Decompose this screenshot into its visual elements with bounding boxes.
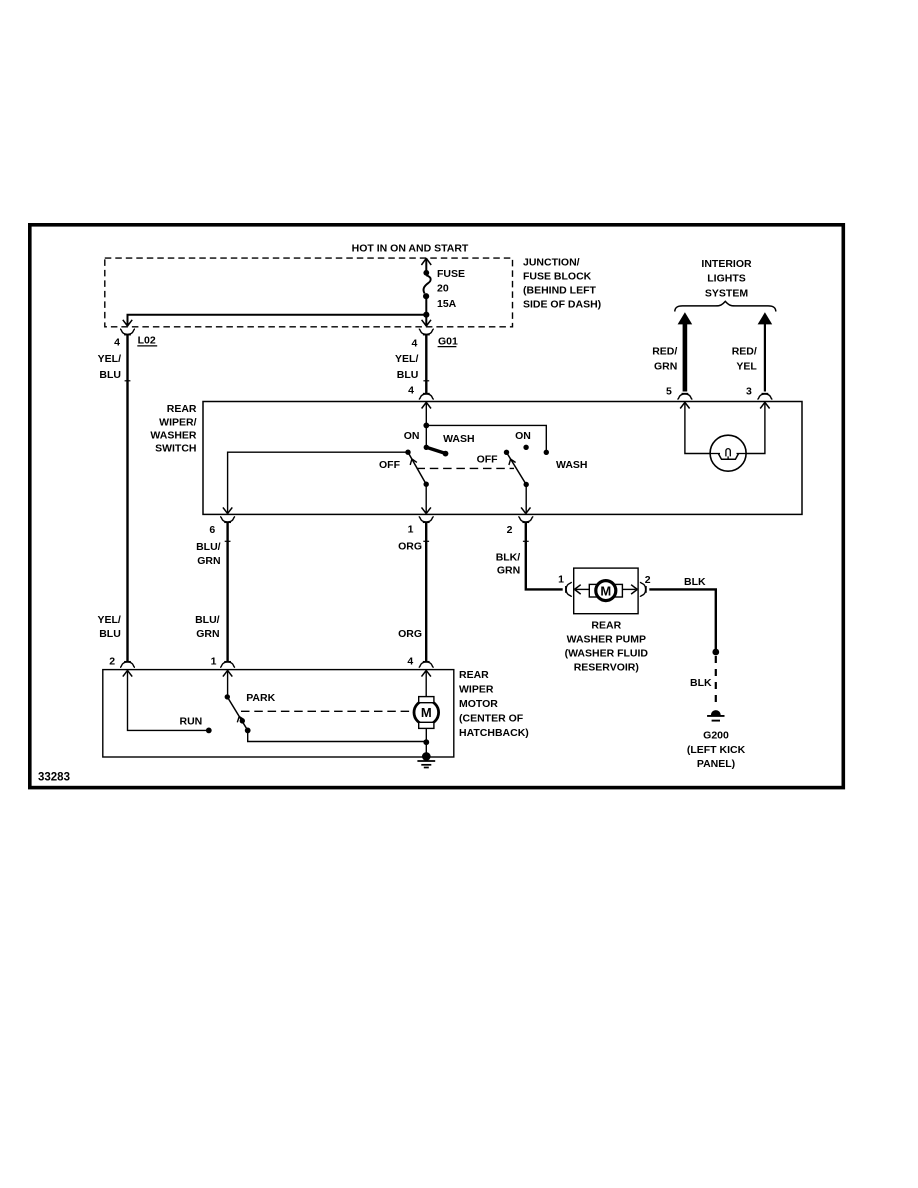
rear wiper motor (box) <box>103 670 454 757</box>
label: REAR WIPER MOTOR (CENTER OF HATCHBACK) <box>459 669 529 739</box>
label: BLU/GRN (lower) <box>195 614 220 640</box>
svg-text:BLU: BLU <box>397 369 419 381</box>
svg-text:REAR: REAR <box>591 620 621 632</box>
wiper motor M <box>414 697 439 729</box>
svg-text:HOT IN ON AND START: HOT IN ON AND START <box>352 243 469 255</box>
switch pin 6 connector (bottom edge) <box>209 507 235 535</box>
svg-text:4: 4 <box>114 336 120 348</box>
label: JUNCTION/FUSE BLOCK (BEHIND LEFT SIDE OF DASH) <box>523 257 601 311</box>
wire: pin 3 to lamp <box>746 402 765 454</box>
svg-text:2: 2 <box>645 574 651 586</box>
wiper motor pin 2 connector (top edge) <box>109 655 135 676</box>
svg-text:G200: G200 <box>703 730 729 742</box>
svg-text:LIGHTS: LIGHTS <box>707 273 746 285</box>
svg-text:BLK: BLK <box>690 677 712 689</box>
svg-text:BLU: BLU <box>99 369 121 381</box>
node: fuse output junction <box>423 312 429 318</box>
switch pin 4 connector (top edge) <box>408 384 434 408</box>
wire BLK (dashed) to ground <box>715 656 717 704</box>
svg-text:20: 20 <box>437 283 449 295</box>
svg-text:ORG: ORG <box>398 541 422 553</box>
wire: pin 4 into switch <box>425 402 427 424</box>
svg-text:GRN: GRN <box>196 628 219 640</box>
svg-text:(CENTER OF: (CENTER OF <box>459 713 524 725</box>
svg-text:(BEHIND LEFT: (BEHIND LEFT <box>523 285 596 297</box>
svg-text:WASH: WASH <box>443 433 475 445</box>
svg-text:WASHER: WASHER <box>150 430 197 442</box>
svg-text:1: 1 <box>558 574 564 586</box>
wire: fuse output down to junction node <box>425 298 427 315</box>
wire: junction node to L02 drop <box>128 315 427 327</box>
svg-text:GRN: GRN <box>197 555 220 567</box>
svg-text:SIDE OF DASH): SIDE OF DASH) <box>523 298 601 310</box>
wire BLK: washer pump pin 2 to splice <box>649 589 716 649</box>
wire: wash bus to pole 2 WASH contact <box>426 425 546 450</box>
label: YEL/BLU (at G01) <box>395 353 418 381</box>
svg-text:G01: G01 <box>438 336 458 348</box>
connector G01 (pin 4) at J/B bottom edge <box>411 320 458 350</box>
svg-text:BLK: BLK <box>684 576 706 588</box>
svg-text:REAR: REAR <box>459 669 489 681</box>
wire: pin 5 to lamp <box>685 402 711 454</box>
svg-text:ON: ON <box>515 430 531 442</box>
svg-text:WIPER/: WIPER/ <box>159 416 196 428</box>
svg-text:L02: L02 <box>138 335 156 347</box>
ground G200 <box>707 710 724 721</box>
svg-text:RED/: RED/ <box>652 346 677 358</box>
wiper motor pin 4 connector (top edge) <box>407 655 433 676</box>
RUN contact (open end) <box>206 728 212 734</box>
svg-text:BLU: BLU <box>99 628 121 640</box>
svg-text:(WASHER FLUID: (WASHER FLUID <box>565 647 649 659</box>
label: FUSE 20 15A <box>437 268 465 310</box>
switch pin 1 connector (bottom edge) <box>408 507 434 535</box>
svg-text:FUSE BLOCK: FUSE BLOCK <box>523 271 592 283</box>
brace under interior lights label <box>675 301 776 311</box>
svg-text:M: M <box>421 705 432 720</box>
svg-text:1: 1 <box>408 524 414 536</box>
wire: OFF contact to pin 6 drop <box>228 452 408 513</box>
pole 2 WASH contact <box>544 450 549 455</box>
svg-text:YEL/: YEL/ <box>98 353 121 365</box>
rear washer pump (box) <box>574 568 638 614</box>
svg-text:ORG: ORG <box>398 628 422 640</box>
svg-text:4: 4 <box>407 655 413 667</box>
wire: HOT bus feed into fuse (arrow up at J/B top edge) <box>421 258 431 271</box>
svg-text:JUNCTION/: JUNCTION/ <box>523 257 580 269</box>
wire RED/GRN (bold) to interior lights, switch pin 5 <box>677 312 692 408</box>
svg-text:SWITCH: SWITCH <box>155 443 196 455</box>
svg-text:1: 1 <box>211 655 217 667</box>
svg-text:MOTOR: MOTOR <box>459 698 498 710</box>
svg-text:WASH: WASH <box>556 459 588 471</box>
pole 1 ON contact + wiper blade (thick, ON-WASH) <box>424 427 449 457</box>
svg-text:15A: 15A <box>437 298 457 310</box>
svg-text:HATCHBACK): HATCHBACK) <box>459 727 529 739</box>
wire BLK/GRN: switch pin 2 to washer pump pin 1 <box>523 523 563 590</box>
svg-text:RED/: RED/ <box>732 346 757 358</box>
svg-text:3: 3 <box>746 386 752 398</box>
pole 1 blade: OFF to common (arrow) <box>408 452 429 487</box>
pole 2 ON contact (open) <box>523 445 528 450</box>
svg-text:BLU/: BLU/ <box>195 614 220 626</box>
washer pump pin 1 connector (left edge) <box>558 574 581 597</box>
svg-text:4: 4 <box>408 384 414 396</box>
park switch common contact <box>225 694 230 699</box>
mechanical link (dashed): park blade to motor <box>241 710 413 712</box>
connector L02 (pin 4) at J/B bottom edge <box>114 320 157 349</box>
svg-text:OFF: OFF <box>379 459 401 471</box>
svg-text:M: M <box>600 583 611 598</box>
svg-text:2: 2 <box>507 524 513 536</box>
svg-text:RESERVOIR): RESERVOIR) <box>574 662 639 674</box>
svg-text:2: 2 <box>109 655 115 667</box>
wire: pin 2 to RUN contact <box>128 670 207 730</box>
label: BLK/GRN <box>496 551 521 576</box>
svg-text:PANEL): PANEL) <box>697 758 735 770</box>
wire: junction to case ground <box>425 742 427 754</box>
wire: junction node down to G01 <box>425 317 427 326</box>
label: RED/YEL + pin 3 <box>732 346 758 398</box>
label: RED/GRN + pin 5 <box>652 346 677 398</box>
pole 1 OFF contact <box>405 450 410 455</box>
wire BLU/GRN: switch pin 6 to wiper motor pin 1 <box>225 523 231 662</box>
svg-text:(LEFT KICK: (LEFT KICK <box>687 744 746 756</box>
mechanical link (dashed) between poles <box>417 467 515 469</box>
svg-text:33283: 33283 <box>38 771 70 783</box>
svg-text:GRN: GRN <box>497 565 520 577</box>
pole 2 blade: OFF to common (arrow) <box>507 452 529 487</box>
svg-text:INTERIOR: INTERIOR <box>701 258 752 270</box>
wire: pin 4 to motor <box>425 670 427 697</box>
node: switch feed junction <box>423 423 429 429</box>
label: BLU/GRN (upper) <box>196 541 221 567</box>
wire YEL/BLU: L02 to rear wiper motor pin 2 <box>125 335 131 661</box>
junction/fuse block (dashed box) <box>105 258 513 327</box>
rear wiper/washer switch S1 (box) <box>203 402 802 515</box>
park switch blade (arrow) <box>227 697 250 733</box>
wire RED/YEL to interior lights, switch pin 3 <box>757 312 772 408</box>
svg-text:RUN: RUN <box>180 715 203 727</box>
svg-text:4: 4 <box>411 337 417 349</box>
washer pump motor M <box>576 581 636 601</box>
label: YEL/BLU (left, upper) <box>98 353 121 381</box>
switch pin 2 connector (bottom edge) <box>507 507 534 535</box>
svg-text:REAR: REAR <box>167 403 197 415</box>
wire YEL/BLU: G01 to switch pin 4 <box>423 335 429 393</box>
node: motor ground junction <box>423 739 429 745</box>
lamp (switch illumination) <box>710 435 746 471</box>
wire: motor to ground node <box>425 728 427 741</box>
pole 2 OFF contact <box>504 450 509 455</box>
svg-text:5: 5 <box>666 386 672 398</box>
label: G200 (LEFT KICK PANEL) <box>687 730 746 771</box>
wire ORG: switch pin 1 to wiper motor pin 4 <box>423 523 429 662</box>
svg-text:BLK/: BLK/ <box>496 551 521 563</box>
label: YEL/BLU (left, lower) <box>97 614 120 640</box>
node: BLK splice <box>712 649 719 656</box>
wire: pole 1 common to pin 1 <box>425 484 427 513</box>
svg-text:OFF: OFF <box>477 453 499 465</box>
svg-text:YEL: YEL <box>736 360 757 372</box>
svg-text:PARK: PARK <box>246 692 275 704</box>
label: REAR WASHER PUMP (WASHER FLUID RESERVOIR) <box>565 620 649 674</box>
svg-text:FUSE: FUSE <box>437 268 465 280</box>
svg-text:WASHER PUMP: WASHER PUMP <box>567 633 646 645</box>
svg-text:WIPER: WIPER <box>459 684 494 696</box>
label: INTERIOR LIGHTS SYSTEM <box>701 258 752 299</box>
svg-text:YEL/: YEL/ <box>395 353 418 365</box>
wiper motor pin 1 connector (top edge) <box>211 655 236 676</box>
wire: pole 2 common to pin 2 <box>525 485 527 514</box>
label: REAR WIPER/WASHER SWITCH <box>150 403 197 455</box>
washer pump pin 2 connector (right edge) <box>631 574 651 597</box>
wire: park blade to motor case node <box>248 730 425 741</box>
svg-text:YEL/: YEL/ <box>97 614 120 626</box>
wire: pin 1 to park switch common <box>227 670 229 695</box>
svg-text:GRN: GRN <box>654 360 677 372</box>
fuse 20 (15A) <box>423 270 431 299</box>
svg-text:BLU/: BLU/ <box>196 541 221 553</box>
ground (motor case) <box>417 752 435 767</box>
svg-text:SYSTEM: SYSTEM <box>705 287 748 299</box>
svg-text:6: 6 <box>209 524 215 536</box>
svg-text:ON: ON <box>404 430 420 442</box>
